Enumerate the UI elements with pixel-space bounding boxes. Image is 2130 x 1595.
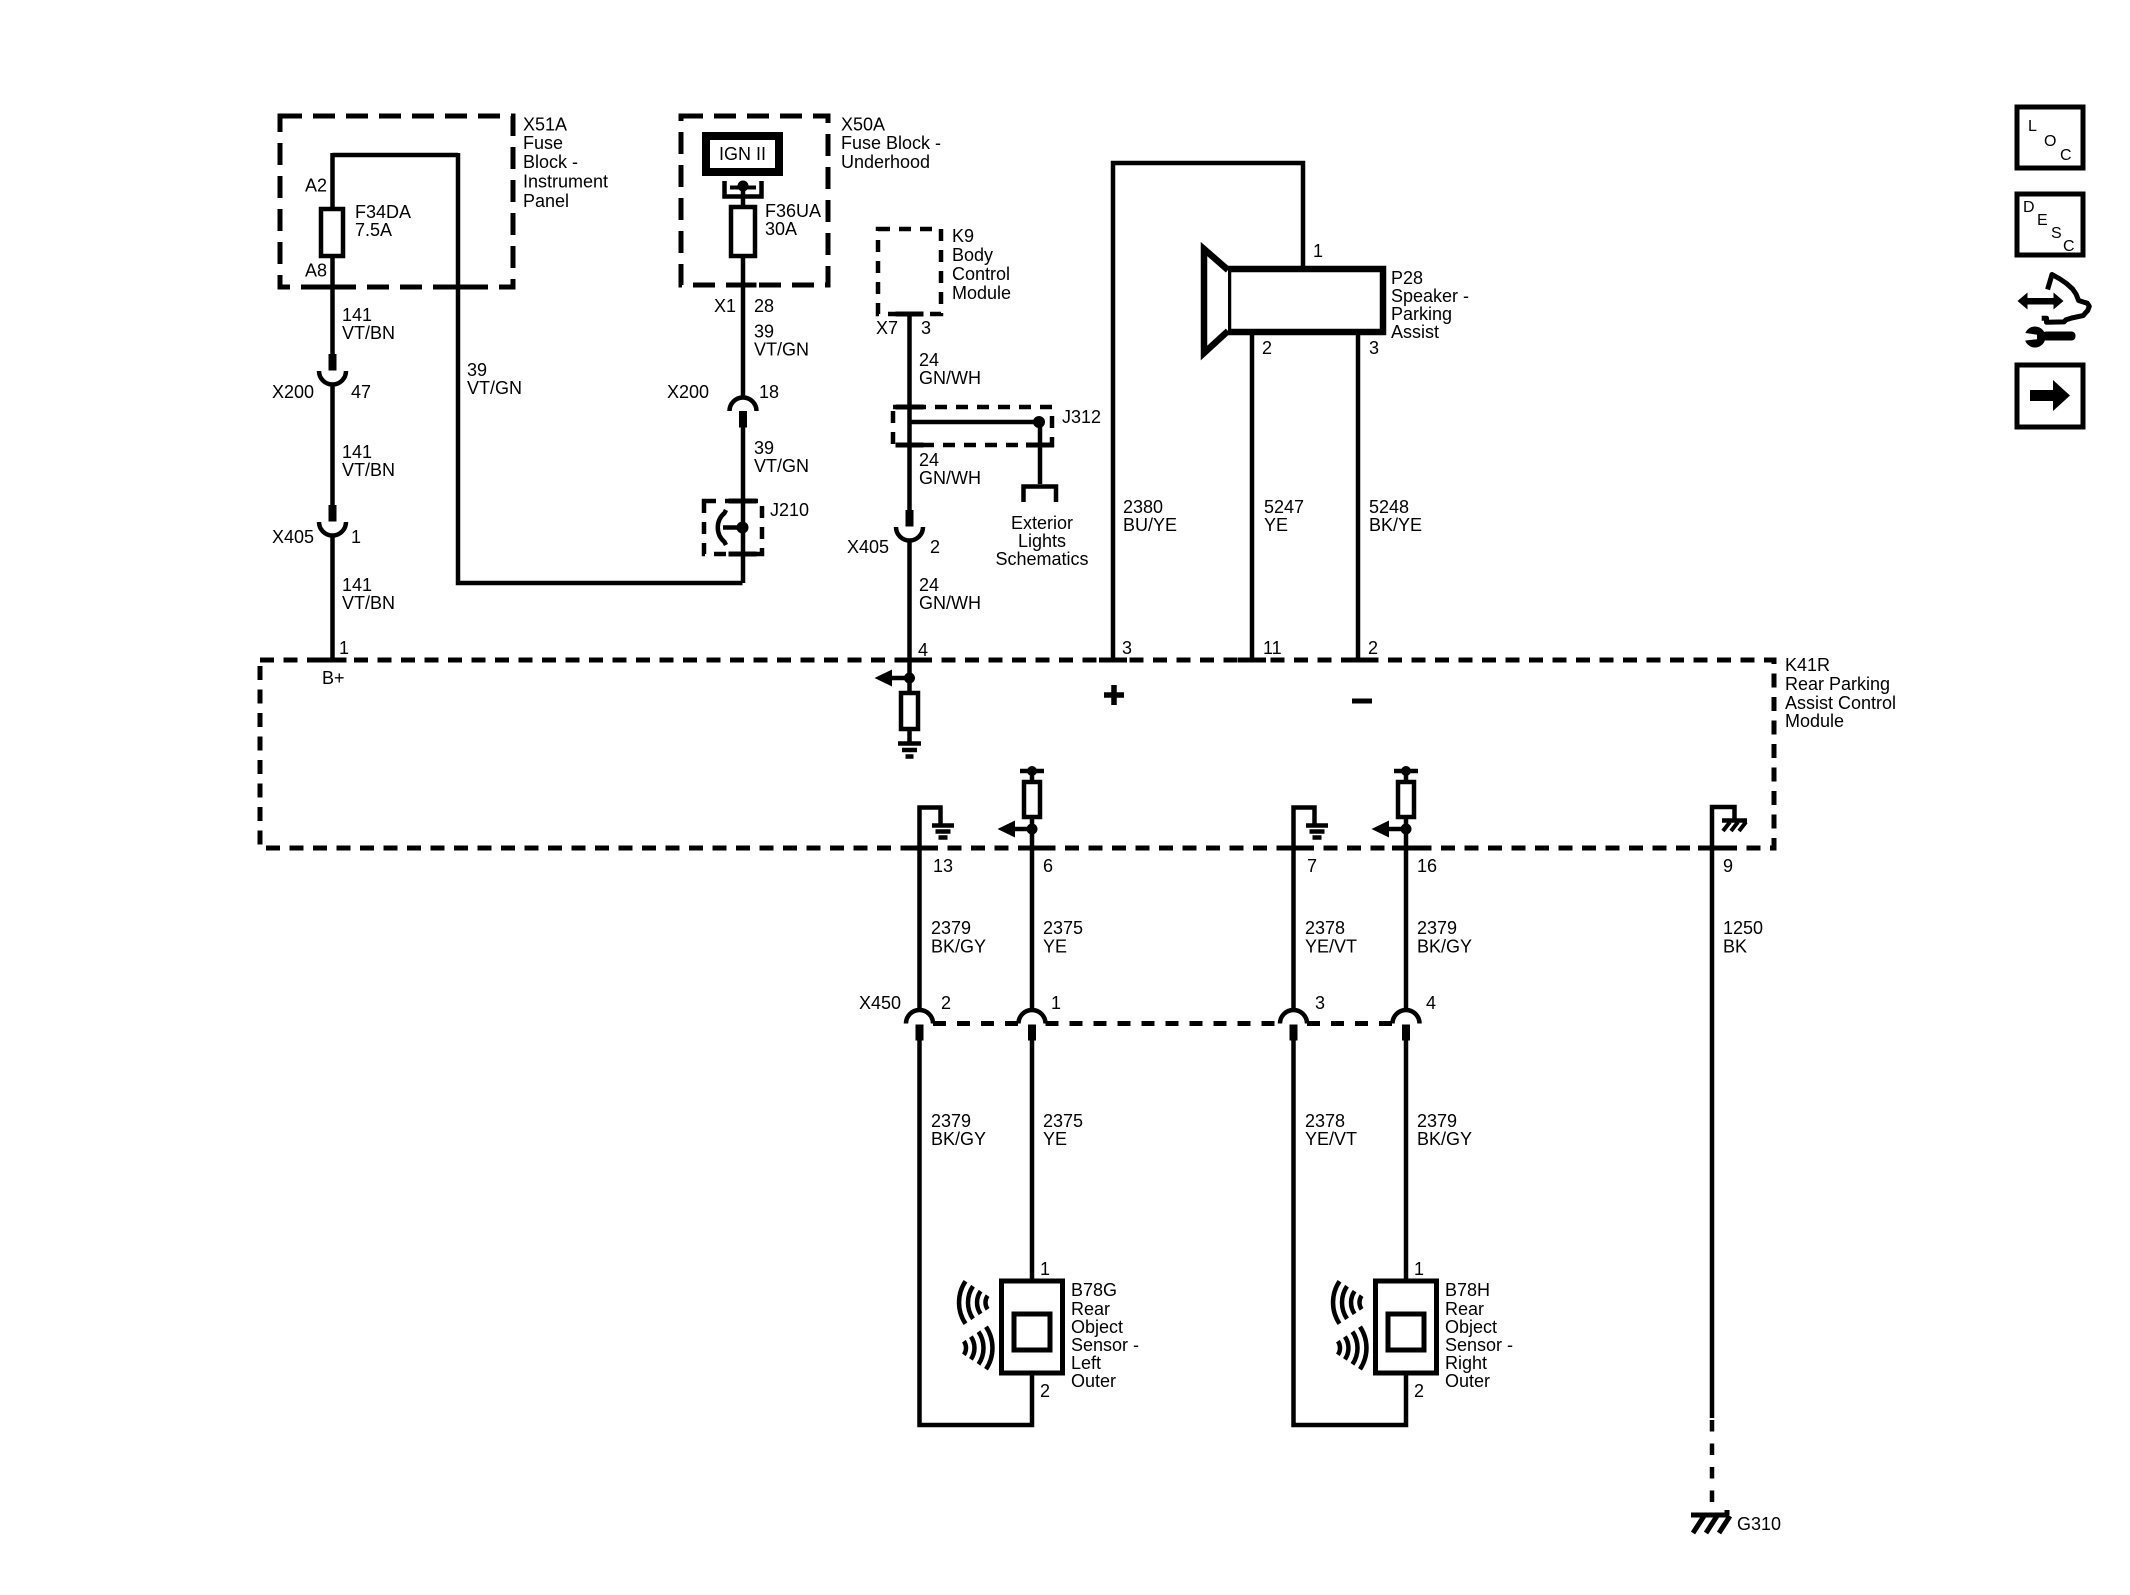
wire: K9 X7-3 output 24 GN/WH [907,314,912,510]
label wire 5247 YE [1264,497,1304,535]
label wire 24 GN/WH (middle) [919,450,981,488]
icon harness repair (double arrow, outline, wrench) [2018,275,2090,348]
svg-text:39: 39 [754,322,774,342]
label wire 5248 BK/YE [1369,497,1422,535]
svg-text:Block -: Block - [523,152,578,172]
wire: 1250 BK dashed segment to G310 [1710,1420,1715,1513]
svg-text:Fuse: Fuse [523,133,563,153]
wire: 1250 BK pin 9 down (solid) [1710,848,1715,1418]
connector X405 pin 1 (male bar + female cup) [319,505,346,536]
svg-text:2378: 2378 [1305,918,1345,938]
label wire 141 VT/BN (lower) [342,575,395,613]
svg-text:Assist: Assist [1391,322,1439,342]
label wire 2379 BK/GY (lower right) [1417,1111,1472,1149]
junction dot at pin 16 internal [1401,824,1412,835]
svg-text:BK/GY: BK/GY [1417,1129,1472,1149]
signal arrow at pin 4 [875,670,906,687]
svg-text:X405: X405 [272,527,314,547]
sensor B78G Rear Object Sensor - Left Outer (box) [1002,1281,1063,1373]
plus node label [1104,685,1124,705]
minus node label [1352,699,1372,704]
svg-text:6: 6 [1043,856,1053,876]
wire: 2380 BU/YE from K41R pin 3 up and over to speaker pin 1 [1113,163,1303,662]
svg-text:X1: X1 [714,296,736,316]
svg-text:1: 1 [1040,1259,1050,1279]
svg-text:2: 2 [1414,1381,1424,1401]
label wire 141 VT/BN (middle) [342,442,395,480]
wire: 5247 YE speaker pin 2 to K41R pin 11 [1250,332,1255,662]
label F36UA 30A [765,201,821,239]
svg-text:Rear Parking: Rear Parking [1785,674,1890,694]
splice J312 (dashed box) [893,407,1052,445]
svg-text:J312: J312 [1062,407,1101,427]
label P28 Speaker - Parking Assist [1391,268,1469,342]
svg-text:Sensor -: Sensor - [1071,1335,1139,1355]
junction dot at pin 6 internal [1027,824,1038,835]
bus IGN II (thick box) [706,136,779,172]
svg-text:5247: 5247 [1264,497,1304,517]
svg-text:O: O [2044,133,2056,150]
svg-text:Left: Left [1071,1353,1101,1373]
wire: fuse to connector X200 pin 18 [741,256,746,398]
svg-text:16: 16 [1417,856,1437,876]
svg-text:Underhood: Underhood [841,152,930,172]
label wire 24 GN/WH (lower) [919,575,981,613]
svg-text:2378: 2378 [1305,1111,1345,1131]
ground (K41R internal, pin 7 branch) [1306,826,1328,838]
connector X200 pin 47 (male bar + female cup) [319,354,346,385]
bus bar bracket under IGN II [725,181,762,197]
svg-text:3: 3 [921,318,931,338]
svg-text:YE: YE [1043,1129,1067,1149]
fuse F36UA [731,207,755,256]
pin 13 internal lead [920,808,941,851]
svg-text:Body: Body [952,245,993,265]
svg-text:2379: 2379 [1417,918,1457,938]
svg-text:24: 24 [919,575,939,595]
svg-text:VT/BN: VT/BN [342,460,395,480]
svg-text:X200: X200 [667,382,709,402]
svg-text:Exterior: Exterior [1011,513,1073,533]
label K9 Body Control Module [952,226,1011,303]
svg-text:2375: 2375 [1043,918,1083,938]
svg-text:2: 2 [1262,338,1272,358]
svg-text:YE/VT: YE/VT [1305,1129,1357,1149]
label wire 2375 YE (upper) [1043,918,1083,957]
terminal dot on IGN II feed [738,181,749,192]
svg-text:F36UA: F36UA [765,201,821,221]
svg-text:1: 1 [339,638,349,658]
svg-text:X50A: X50A [841,115,885,135]
signal arrow at pin 16 [1372,821,1403,838]
svg-text:Lights: Lights [1018,531,1066,551]
label wire 2379 BK/GY (upper left) [931,918,986,957]
svg-text:4: 4 [918,640,928,660]
connector X450 pin 1 (female cup + male bar) [1019,1010,1046,1041]
svg-text:P28: P28 [1391,268,1423,288]
svg-text:C: C [2060,147,2072,164]
wire: fuse F34DA feed down [330,153,335,354]
svg-text:VT/BN: VT/BN [342,323,395,343]
junction dot J312 [1033,416,1045,428]
wire: 5248 BK/YE speaker pin 3 to K41R pin 2 [1356,332,1361,662]
speaker P28 - Parking Assist (box) [1228,269,1383,332]
svg-text:C: C [2063,238,2075,255]
wire: 141 VT/BN between X200 and X405 [330,384,335,505]
svg-text:2379: 2379 [1417,1111,1457,1131]
label wire 24 GN/WH (upper) [919,350,981,388]
pin 9 internal lead [1712,807,1735,850]
svg-text:Schematics: Schematics [995,549,1088,569]
svg-text:GN/WH: GN/WH [919,468,981,488]
svg-text:Fuse Block -: Fuse Block - [841,133,941,153]
svg-text:9: 9 [1723,856,1733,876]
svg-text:141: 141 [342,575,372,595]
off-page connector to Exterior Lights Schematics [1024,487,1057,503]
wire: X51A internal feed horizontal [333,153,459,158]
svg-text:YE: YE [1264,515,1288,535]
svg-text:18: 18 [759,382,779,402]
label wire 2380 BU/YE [1123,497,1177,535]
svg-text:47: 47 [351,382,371,402]
svg-text:Object: Object [1071,1317,1123,1337]
wire: 2379 BK/GY pin 13 to X450-2 [917,848,922,1010]
svg-text:BK/GY: BK/GY [931,1129,986,1149]
svg-text:2379: 2379 [931,1111,971,1131]
module K41R Rear Parking Assist Control Module (dashed box) [260,660,1774,848]
label wire 39 VT/GN (left leg) [467,360,522,398]
svg-text:BU/YE: BU/YE [1123,515,1177,535]
connector X450 pin 2 (female cup + male bar) [906,1010,933,1041]
chassis ground (K41R internal, pin 9 branch) [1722,821,1747,832]
tap line through dot [730,186,756,190]
wire: 2379 BK/GY X450-2 down, under sensor, to B78G pin 2 [920,1041,1033,1426]
svg-text:K41R: K41R [1785,655,1830,675]
pin 6 internal: supply tap [1020,766,1044,776]
ground (K41R internal, pin 13 branch) [932,826,954,838]
wire: B78G internal lead top [1030,1281,1035,1316]
svg-text:39: 39 [754,438,774,458]
svg-text:28: 28 [754,296,774,316]
svg-text:X7: X7 [876,318,898,338]
svg-text:GN/WH: GN/WH [919,368,981,388]
wire: B78H internal lead top [1404,1281,1409,1316]
svg-text:2379: 2379 [931,918,971,938]
wire: tap to resistor pin 16 [1404,771,1409,783]
svg-text:141: 141 [342,305,372,325]
svg-text:GN/WH: GN/WH [919,593,981,613]
svg-text:3: 3 [1122,638,1132,658]
svg-text:VT/BN: VT/BN [342,593,395,613]
wire: 39 VT/GN left leg (vertical + horizontal to J210 leg) [458,153,743,583]
svg-text:3: 3 [1315,993,1325,1013]
svg-text:Assist Control: Assist Control [1785,693,1896,713]
svg-text:BK/YE: BK/YE [1369,515,1422,535]
svg-text:Outer: Outer [1445,1371,1490,1391]
module K9 Body Control Module (dashed box) [878,229,941,314]
svg-text:X51A: X51A [523,115,567,135]
svg-text:2: 2 [941,993,951,1013]
svg-text:24: 24 [919,450,939,470]
label F34DA 7.5A [355,202,411,240]
fuse block X51A (dashed box) [280,116,513,287]
label X51A Fuse Block - Instrument Panel [523,115,608,212]
svg-text:Sensor -: Sensor - [1445,1335,1513,1355]
junction dot J210 [737,522,749,534]
splice terminal arc inside J210 [718,510,726,545]
wire: 141 VT/BN to K41R pin 1 [330,535,335,662]
svg-text:Object: Object [1445,1317,1497,1337]
svg-text:13: 13 [933,856,953,876]
svg-text:2380: 2380 [1123,497,1163,517]
svg-text:Instrument: Instrument [523,172,608,192]
svg-text:D: D [2023,199,2035,216]
label X50A Fuse Block - Underhood [841,115,941,173]
label wire 39 VT/GN (upper) [754,322,809,360]
svg-text:2375: 2375 [1043,1111,1083,1131]
svg-text:Outer: Outer [1071,1371,1116,1391]
svg-text:2: 2 [1040,1381,1050,1401]
junction dot at pin 4 internal [904,673,915,684]
icon box forward arrow [2017,365,2083,427]
svg-text:X405: X405 [847,537,889,557]
svg-text:1: 1 [351,527,361,547]
splice J210 (dashed box) [704,501,762,554]
wire: 2379 BK/GY pin 16 to X450-4 [1404,848,1409,1010]
svg-text:IGN II: IGN II [719,144,766,164]
sensor B78H inner element [1388,1314,1424,1350]
svg-text:2: 2 [1368,638,1378,658]
icon box DESC [2017,194,2083,255]
svg-text:11: 11 [1263,638,1282,658]
svg-text:B78G: B78G [1071,1280,1117,1300]
svg-text:BK: BK [1723,937,1747,957]
wire: 2375 YE pin 6 to X450-1 [1030,848,1035,1010]
svg-text:141: 141 [342,442,372,462]
wire: tap to resistor pin 6 [1030,771,1035,783]
svg-text:B78H: B78H [1445,1280,1490,1300]
svg-text:X450: X450 [859,993,901,1013]
svg-text:A2: A2 [305,176,327,196]
svg-text:X200: X200 [272,382,314,402]
speaker cone [1204,249,1228,353]
fuse F34DA [321,209,343,256]
splice branch line J312 [910,420,1037,425]
fuse block X50A - Underhood (dashed box) [681,116,828,285]
resistor (pin 16 pull-up) [1398,782,1414,817]
svg-text:E: E [2037,212,2048,229]
label wire 2378 YE/VT (upper) [1305,918,1357,957]
connector X405 pin 2 (male bar + female cup) [896,510,923,541]
wire: resistor to ground [907,729,912,742]
svg-text:VT/GN: VT/GN [467,378,522,398]
label wire 2378 YE/VT (lower) [1305,1111,1357,1149]
wire: 24 GN/WH to K41R pin 4 [907,540,912,678]
svg-text:G310: G310 [1737,1514,1781,1534]
svg-text:30A: 30A [765,219,797,239]
svg-text:BK/GY: BK/GY [931,937,986,957]
svg-text:A8: A8 [305,261,327,281]
svg-text:Module: Module [1785,711,1844,731]
svg-text:1: 1 [1313,241,1323,261]
svg-text:7.5A: 7.5A [355,220,392,240]
svg-text:J210: J210 [770,500,809,520]
splice branch line [723,525,740,530]
svg-text:K9: K9 [952,226,974,246]
svg-text:24: 24 [919,350,939,370]
border crossing ticks on dashed boxes [319,285,1727,848]
svg-text:Parking: Parking [1391,304,1452,324]
svg-text:39: 39 [467,360,487,380]
svg-text:F34DA: F34DA [355,202,411,222]
connector row X450 dashed harness line [933,1021,1393,1026]
icon box LOC [2017,107,2083,168]
svg-text:5248: 5248 [1369,497,1409,517]
svg-text:1: 1 [1414,1259,1424,1279]
label wire 141 VT/BN (upper) [342,305,395,343]
wire: 2379 BK/GY X450-4 to B78H pin 1 [1404,1041,1409,1285]
signal arrow at pin 6 [998,821,1029,838]
label wire 2379 BK/GY (lower left) [931,1111,986,1149]
svg-text:4: 4 [1426,993,1436,1013]
svg-text:Speaker -: Speaker - [1391,286,1469,306]
wire: resistor to pin 16 [1404,817,1409,850]
label B78H Rear Object Sensor - Right Outer [1445,1280,1513,1391]
svg-text:VT/GN: VT/GN [754,340,809,360]
svg-text:7: 7 [1307,856,1317,876]
connector X450 pin 4 (female cup + male bar) [1393,1010,1420,1041]
svg-text:Rear: Rear [1445,1299,1484,1319]
ground G310 (chassis) [1691,1510,1730,1533]
svg-text:Panel: Panel [523,191,569,211]
svg-text:VT/GN: VT/GN [754,456,809,476]
svg-text:Rear: Rear [1071,1299,1110,1319]
svg-text:Module: Module [952,283,1011,303]
wire: IGN II to fuse F36UA [741,186,746,209]
wire: B78H internal lead bottom [1404,1348,1409,1373]
sensor B78G inner element [1014,1314,1050,1350]
label B78G Rear Object Sensor - Left Outer [1071,1280,1139,1391]
label wire 39 VT/GN (lower) [754,438,809,476]
wire: 2378 YE/VT pin 7 to X450-3 [1291,848,1296,1010]
svg-text:1: 1 [1051,993,1061,1013]
svg-text:2: 2 [930,537,940,557]
svg-text:B+: B+ [322,668,345,688]
connector X200 pin 18 (female cup + male bar) [730,398,757,428]
pin 16 internal: supply tap [1394,766,1418,776]
label wire 2375 YE (lower) [1043,1111,1083,1149]
wire: J312 branch down to off-page [1038,422,1043,484]
wire: B78G internal lead bottom [1030,1348,1035,1373]
ground (K41R internal, pin 4 branch) [898,744,921,757]
label Exterior Lights Schematics [995,513,1088,569]
connector X450 pin 3 (female cup + male bar) [1280,1010,1307,1041]
resistor (pin 6 pull-up) [1024,782,1040,817]
sensor B78H Rear Object Sensor - Right Outer (box) [1376,1281,1437,1373]
svg-text:YE/VT: YE/VT [1305,937,1357,957]
wire: 2378 YE/VT X450-3 down, under sensor, to B78H pin 2 [1294,1041,1407,1426]
pin 7 internal lead [1294,808,1315,851]
wire: pin4 dot to resistor [907,678,912,694]
label K41R Rear Parking Assist Control Module [1785,655,1896,731]
sound waves B78G lower [964,1327,993,1369]
sound waves B78H lower [1338,1327,1367,1369]
svg-text:S: S [2051,225,2062,242]
svg-text:3: 3 [1369,338,1379,358]
svg-text:L: L [2028,118,2037,135]
svg-text:YE: YE [1043,937,1067,957]
svg-text:Control: Control [952,264,1010,284]
svg-text:Right: Right [1445,1353,1487,1373]
resistor (pin 4 load) [901,693,918,729]
sound waves B78G upper [959,1281,988,1323]
wire: resistor to pin 6 [1030,817,1035,850]
svg-text:BK/GY: BK/GY [1417,937,1472,957]
wire: X200-18 to J210 and down [741,427,746,583]
sound waves B78H upper [1333,1281,1362,1323]
label wire 1250 BK [1723,918,1763,957]
label wire 2379 BK/GY (upper right) [1417,918,1472,957]
wire: 2375 YE X450-1 to B78G pin 1 [1030,1041,1035,1285]
svg-text:1250: 1250 [1723,918,1763,938]
